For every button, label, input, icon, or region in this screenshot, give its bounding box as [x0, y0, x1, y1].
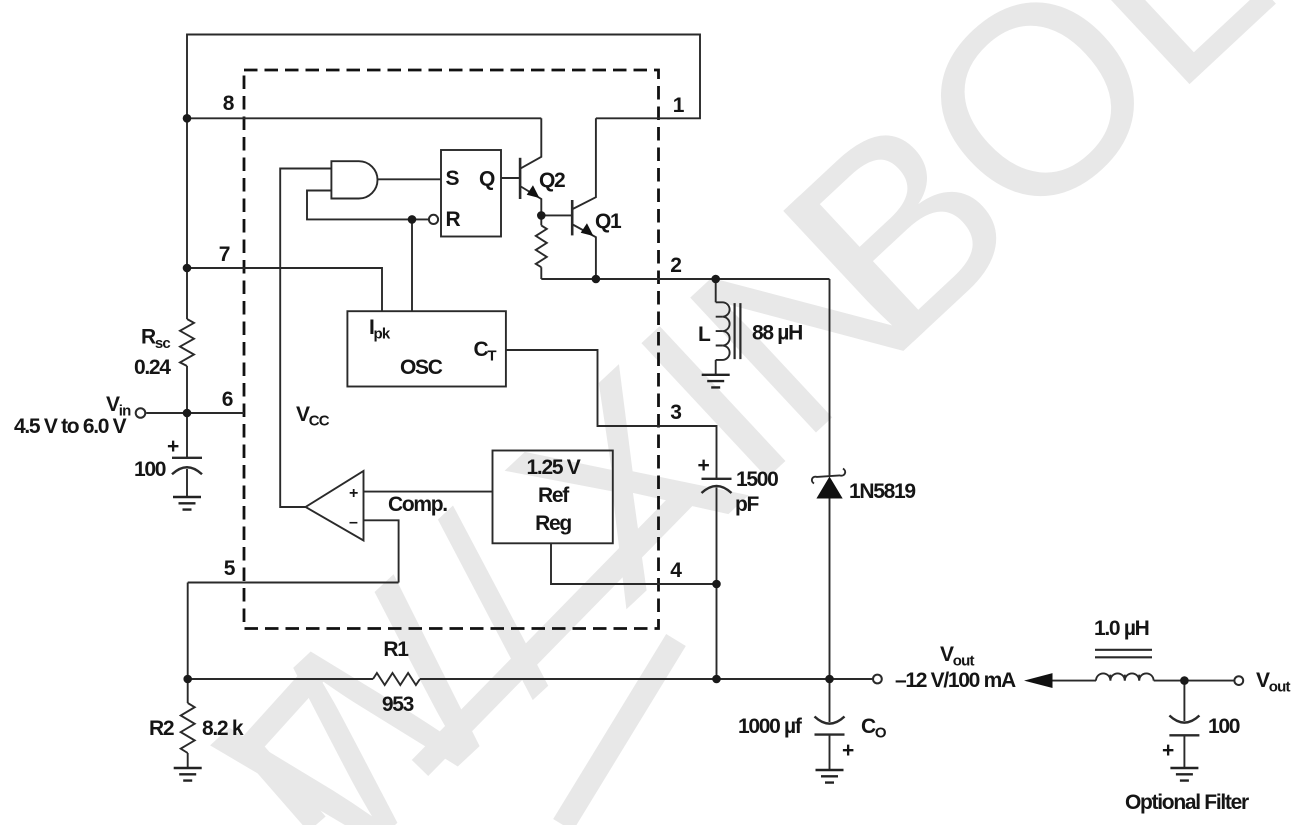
svg-text:+: +: [349, 485, 358, 502]
svg-text:0.24: 0.24: [134, 356, 171, 379]
svg-text:Vout: Vout: [940, 643, 974, 670]
svg-text:+: +: [698, 454, 710, 477]
svg-text:Q1: Q1: [595, 210, 622, 233]
svg-text:Ref: Ref: [538, 484, 570, 507]
svg-text:R: R: [446, 208, 461, 231]
svg-text:VCC: VCC: [296, 403, 330, 430]
svg-text:Reg: Reg: [535, 512, 571, 535]
svg-text:7: 7: [219, 243, 230, 266]
svg-text:8.2 k: 8.2 k: [202, 717, 244, 740]
svg-text:pF: pF: [735, 493, 760, 516]
svg-text:1: 1: [673, 94, 685, 117]
svg-text:1500: 1500: [736, 468, 778, 491]
svg-text:S: S: [446, 167, 460, 190]
svg-text:5: 5: [224, 557, 236, 580]
svg-text:+: +: [167, 435, 179, 458]
svg-text:2: 2: [670, 254, 681, 277]
svg-text:Q: Q: [479, 168, 495, 191]
svg-text:+: +: [842, 739, 854, 762]
svg-text:6: 6: [222, 388, 233, 411]
svg-text:CT: CT: [474, 338, 497, 365]
svg-text:4: 4: [670, 559, 682, 582]
svg-text:953: 953: [382, 693, 414, 716]
svg-text:100: 100: [134, 458, 166, 481]
svg-text:W/XINBOL: W/XINBOL: [169, 0, 1299, 825]
svg-text:1.0 µH: 1.0 µH: [1094, 617, 1149, 640]
svg-text:+: +: [1162, 739, 1174, 762]
svg-text:4.5 V to 6.0 V: 4.5 V to 6.0 V: [14, 415, 127, 438]
svg-text:L: L: [698, 323, 711, 346]
svg-text:R1: R1: [383, 638, 409, 661]
svg-text:Vout: Vout: [1256, 669, 1290, 696]
svg-text:Rsc: Rsc: [141, 326, 170, 353]
svg-text:OSC: OSC: [400, 356, 443, 379]
svg-text:Comp.: Comp.: [388, 493, 447, 516]
svg-text:88 µH: 88 µH: [752, 322, 802, 345]
svg-text:8: 8: [223, 92, 235, 115]
svg-text:1.25 V: 1.25 V: [527, 456, 581, 479]
svg-text:Q2: Q2: [539, 169, 565, 192]
svg-text:–: –: [349, 514, 358, 531]
svg-text:–12 V/100 mA: –12 V/100 mA: [895, 669, 1016, 692]
svg-text:1000 µf: 1000 µf: [738, 715, 803, 738]
svg-text:100: 100: [1208, 715, 1240, 738]
svg-text:Ipk: Ipk: [369, 316, 391, 343]
svg-text:CO: CO: [861, 715, 887, 742]
svg-text:1N5819: 1N5819: [849, 480, 915, 503]
svg-text:3: 3: [670, 401, 681, 424]
svg-text:R2: R2: [149, 717, 174, 740]
svg-text:Optional Filter: Optional Filter: [1125, 791, 1249, 814]
